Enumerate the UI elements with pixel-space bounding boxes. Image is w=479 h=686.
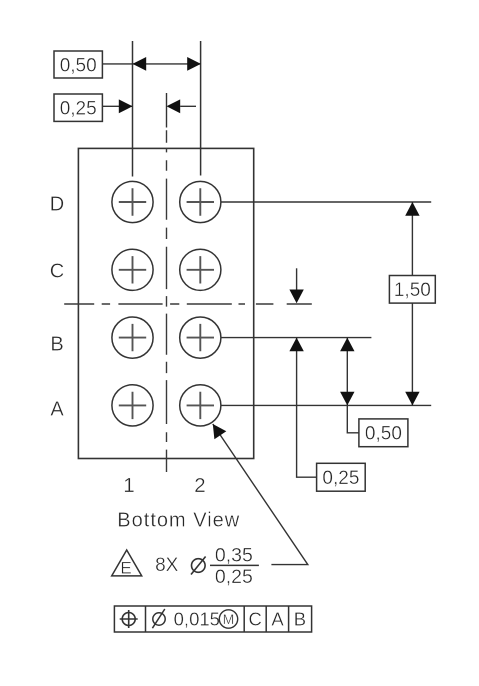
svg-text:0,25: 0,25	[60, 99, 97, 120]
svg-text:M: M	[223, 611, 235, 627]
svg-text:E: E	[120, 558, 131, 577]
svg-text:0,015: 0,015	[174, 608, 220, 629]
svg-text:0,25: 0,25	[215, 566, 253, 588]
svg-text:0,35: 0,35	[215, 544, 253, 566]
svg-text:1: 1	[123, 474, 134, 497]
svg-text:A: A	[271, 608, 284, 629]
svg-text:0,25: 0,25	[322, 468, 359, 489]
svg-text:2: 2	[194, 474, 205, 497]
svg-text:D: D	[50, 193, 64, 215]
svg-text:C: C	[249, 608, 262, 629]
svg-text:A: A	[50, 398, 64, 420]
svg-text:0,50: 0,50	[365, 424, 402, 445]
svg-text:B: B	[50, 333, 63, 355]
svg-text:C: C	[50, 261, 64, 283]
svg-text:1,50: 1,50	[394, 280, 431, 301]
svg-text:0,50: 0,50	[60, 55, 97, 76]
svg-text:8X: 8X	[155, 555, 179, 576]
svg-text:B: B	[294, 608, 306, 629]
svg-text:Bottom View: Bottom View	[117, 509, 240, 531]
